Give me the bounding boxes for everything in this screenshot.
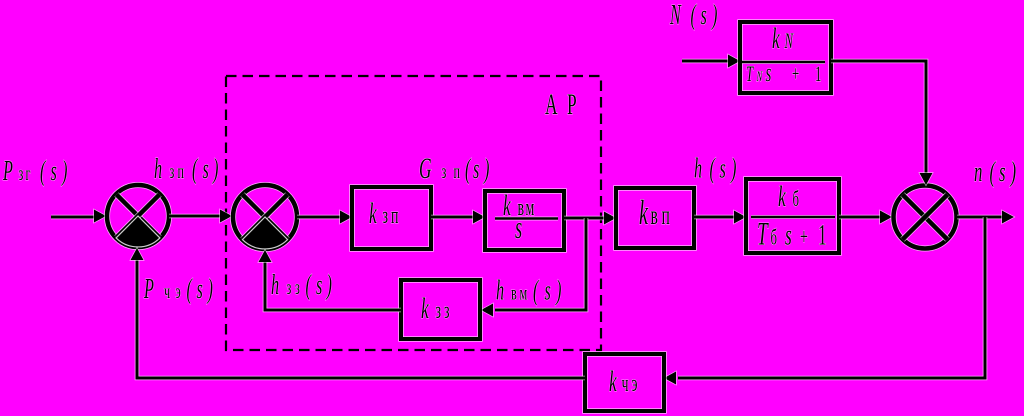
svg-text:k: k xyxy=(778,180,787,213)
svg-text:P: P xyxy=(2,156,13,187)
wire S2 to Kzp xyxy=(297,211,352,224)
svg-text:h: h xyxy=(271,270,279,301)
svg-text:s: s xyxy=(473,154,479,185)
svg-text:): ) xyxy=(711,0,718,30)
svg-text:п: п xyxy=(662,200,671,231)
svg-text:N: N xyxy=(784,28,794,52)
svg-text:з: з xyxy=(295,276,300,299)
wire KN to S3 top xyxy=(831,61,933,185)
block KN (k_N / (T_N s + 1)) xyxy=(740,22,831,93)
svg-text:k: k xyxy=(609,365,618,398)
svg-text:п: п xyxy=(178,160,185,183)
svg-text:А: А xyxy=(545,88,558,121)
svg-text:э: э xyxy=(176,280,181,303)
svg-text:): ) xyxy=(555,275,562,306)
block Kzp (k_zp) xyxy=(352,187,431,249)
wire Kche to S1 bottom xyxy=(131,248,586,378)
svg-text:): ) xyxy=(325,270,332,301)
svg-text:1: 1 xyxy=(818,219,827,252)
wire Kb to S3 xyxy=(839,211,892,224)
svg-text:): ) xyxy=(212,154,219,185)
svg-text:в: в xyxy=(651,200,658,231)
wire N input xyxy=(682,55,740,68)
svg-text:k: k xyxy=(369,197,378,230)
label G_zp(s) xyxy=(419,152,489,185)
label h_zp(s) xyxy=(154,154,218,185)
wire Kzz to S2 bottom xyxy=(259,250,402,310)
svg-text:Р: Р xyxy=(567,88,577,121)
svg-text:п: п xyxy=(391,203,399,229)
svg-text:s: s xyxy=(203,154,209,185)
block Kb (k_b / (T_b s + 1)) xyxy=(746,179,839,253)
svg-text:п: п xyxy=(454,160,461,183)
svg-text:з: з xyxy=(170,160,175,183)
svg-text:n: n xyxy=(974,157,982,189)
svg-text:з: з xyxy=(19,162,24,185)
svg-text:з: з xyxy=(444,298,450,324)
label h(s) xyxy=(694,153,736,184)
label n(s) xyxy=(974,157,1016,189)
svg-text:б: б xyxy=(793,186,799,210)
block Kvp (k_vp) xyxy=(616,188,694,248)
svg-text:T: T xyxy=(757,215,769,252)
svg-text:): ) xyxy=(730,153,737,184)
label P_che(s) xyxy=(143,274,213,305)
wire Kzp to Kvm xyxy=(431,211,485,224)
block Kvm (k_vm / s) xyxy=(485,189,564,250)
svg-text:): ) xyxy=(483,154,490,185)
svg-text:k: k xyxy=(639,195,649,233)
svg-text:s: s xyxy=(766,58,772,87)
svg-text:г: г xyxy=(26,162,31,185)
block Kzz (k_zz) xyxy=(401,280,480,339)
svg-text:s: s xyxy=(316,270,322,301)
svg-text:+: + xyxy=(792,61,799,85)
svg-text:h: h xyxy=(694,153,702,184)
svg-text:ч: ч xyxy=(622,371,629,397)
summing junction S3 xyxy=(894,186,957,249)
label P_zg(s) xyxy=(2,156,67,187)
summing junction S1 xyxy=(107,185,169,247)
svg-text:s: s xyxy=(720,153,726,184)
wire S3 to output xyxy=(957,211,1014,224)
label AP xyxy=(545,88,577,121)
svg-text:з: з xyxy=(442,160,447,183)
svg-text:в: в xyxy=(511,281,517,304)
svg-text:s: s xyxy=(701,0,707,30)
svg-text:ч: ч xyxy=(164,280,170,303)
dashed box AP (automatic regulator boundary) xyxy=(226,76,601,350)
label h_zz(s) xyxy=(271,270,332,301)
svg-text:): ) xyxy=(206,274,213,305)
svg-text:s: s xyxy=(999,157,1006,189)
label h_vm(s) xyxy=(496,275,561,306)
svg-text:k: k xyxy=(421,292,430,325)
wire Kvm to Kvp xyxy=(564,212,616,225)
wire Kvp to Kb xyxy=(694,211,746,224)
svg-text:э: э xyxy=(632,371,638,397)
wire input to S1 xyxy=(51,210,106,223)
svg-text:s: s xyxy=(515,210,522,245)
svg-text:): ) xyxy=(1009,157,1016,189)
svg-text:1: 1 xyxy=(815,61,821,85)
svg-text:з: з xyxy=(436,298,442,324)
svg-text:з: з xyxy=(287,276,292,299)
block Kche (k_che) xyxy=(585,354,664,411)
svg-text:s: s xyxy=(545,275,551,306)
svg-text:s: s xyxy=(785,219,792,252)
svg-text:G: G xyxy=(419,152,432,185)
svg-text:N: N xyxy=(669,0,682,30)
svg-text:P: P xyxy=(143,274,154,305)
svg-text:k: k xyxy=(772,22,781,55)
svg-text:s: s xyxy=(51,156,57,187)
svg-text:+: + xyxy=(800,225,808,251)
summing junction S2 xyxy=(233,185,297,249)
svg-text:s: s xyxy=(197,274,203,305)
svg-text:h: h xyxy=(496,275,504,306)
svg-text:з: з xyxy=(383,203,389,229)
svg-text:м: м xyxy=(520,281,528,304)
svg-text:N: N xyxy=(756,68,763,85)
svg-text:): ) xyxy=(61,156,68,187)
svg-text:h: h xyxy=(154,154,162,185)
wire inner feedback from node to Kzz xyxy=(481,218,586,317)
wire outer feedback from output node to Kche xyxy=(664,217,985,385)
wire S1 to S2 xyxy=(169,210,232,223)
svg-text:б: б xyxy=(771,225,777,249)
label N(s) xyxy=(669,0,717,30)
